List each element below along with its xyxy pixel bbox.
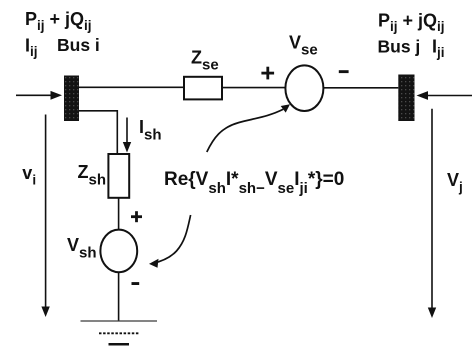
current arrow Iij into bus i: [16, 91, 62, 100]
voltage arrow vi: [41, 115, 49, 318]
source Vse: [285, 65, 323, 111]
annotation arrow to Vse: [207, 104, 290, 152]
wire Vsh to ground: [118, 272, 120, 321]
plus sign (Vsh): [131, 211, 142, 222]
plus sign (Vse): [261, 67, 274, 80]
current arrow Ish: [123, 118, 131, 153]
wire bus i to Zse: [79, 86, 184, 88]
annotation arrow to Vsh: [149, 215, 191, 268]
wire bus i to shunt branch: [79, 111, 117, 154]
source Vsh: [100, 230, 137, 273]
resistor Zsh: [108, 154, 129, 198]
resistor Zse: [184, 77, 222, 100]
wire Zse to Vse: [222, 87, 286, 89]
ground: [81, 321, 158, 344]
minus sign (Vsh): [132, 282, 140, 285]
current arrow Iji into bus j: [417, 91, 473, 100]
bus j bar: [398, 75, 414, 122]
minus sign (Vse): [339, 70, 349, 73]
voltage arrow Vj: [428, 109, 436, 318]
wire Vse to bus j: [323, 87, 398, 89]
wire Zsh to Vsh: [118, 198, 120, 230]
bus i bar: [64, 76, 79, 122]
